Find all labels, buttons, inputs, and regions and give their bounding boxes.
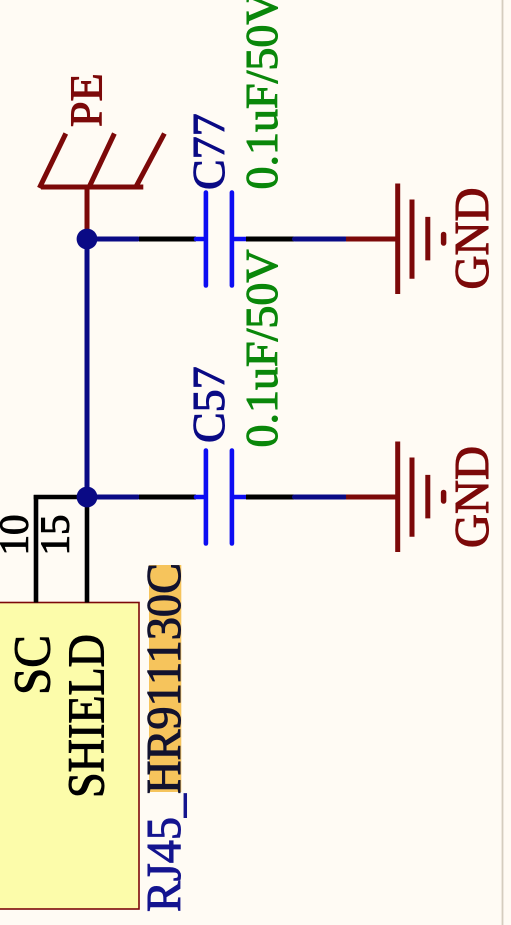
svg-text:0.1uF/50V: 0.1uF/50V xyxy=(236,0,287,190)
svg-text:HR911130C: HR911130C xyxy=(138,563,191,794)
svg-text:RJ45_: RJ45_ xyxy=(138,793,191,912)
svg-text:C57: C57 xyxy=(183,366,234,443)
svg-text:C77: C77 xyxy=(183,113,234,190)
svg-text:SHIELD: SHIELD xyxy=(59,634,116,798)
svg-text:SC: SC xyxy=(5,635,62,695)
svg-text:GND: GND xyxy=(444,446,499,548)
svg-text:15: 15 xyxy=(32,515,78,556)
svg-text:PE: PE xyxy=(61,73,112,127)
svg-text:GND: GND xyxy=(444,188,499,290)
svg-text:0.1uF/50V: 0.1uF/50V xyxy=(236,249,287,447)
